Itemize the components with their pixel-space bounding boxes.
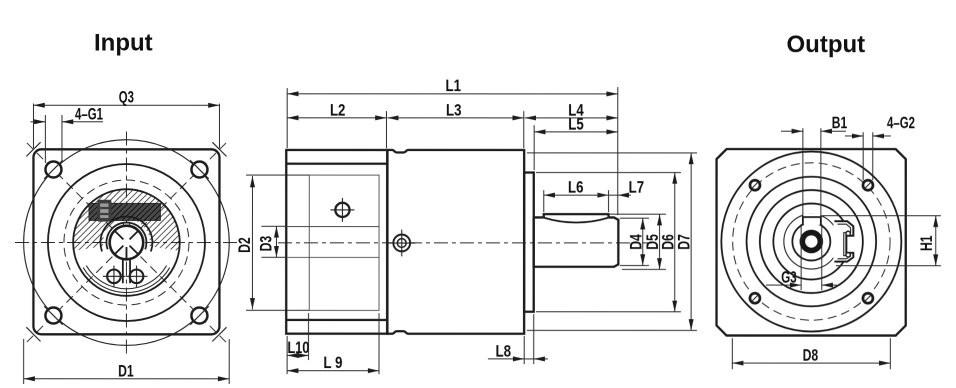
hub outer circle bbox=[773, 204, 849, 280]
svg-text:H1: H1 bbox=[918, 235, 936, 251]
svg-text:D7: D7 bbox=[676, 234, 694, 250]
clamp screw left bbox=[107, 270, 121, 284]
pilot circle D1 bbox=[24, 140, 230, 346]
bore spoke SE bbox=[130, 246, 138, 254]
shaft key bbox=[544, 214, 609, 217]
svg-text:L5: L5 bbox=[568, 115, 584, 133]
svg-text:L 9: L 9 bbox=[323, 354, 342, 372]
bore spoke NW bbox=[115, 231, 123, 239]
centerline horizontal bbox=[15, 242, 237, 244]
input bore bbox=[110, 226, 144, 260]
svg-text:L1: L1 bbox=[446, 77, 462, 95]
clamp screw top bbox=[846, 231, 850, 235]
body circle bbox=[48, 164, 205, 321]
dimension D8 bbox=[731, 338, 733, 369]
dimension 4-G1 bbox=[44, 115, 46, 163]
svg-text:L7: L7 bbox=[629, 179, 645, 197]
dimension D5 bbox=[610, 213, 666, 215]
flange square bbox=[33, 149, 219, 334]
clamp bracket bbox=[833, 221, 853, 262]
diagonal centerline to top-right hole bbox=[140, 142, 227, 229]
flange hole bottom-right bbox=[191, 308, 207, 324]
output bore ring bbox=[802, 233, 820, 251]
dimension L10 bbox=[308, 313, 310, 360]
dimension L7 bbox=[594, 194, 618, 196]
hub outer circle bbox=[73, 189, 180, 296]
diagonal centerline to top-left hole bbox=[26, 142, 113, 229]
svg-text:D6: D6 bbox=[659, 234, 677, 250]
inner arc r20 bbox=[106, 223, 146, 250]
output shaft bbox=[534, 217, 619, 266]
diagonal centerline to bottom-left hole bbox=[26, 257, 113, 344]
corner tick top-left bbox=[26, 142, 40, 156]
output hole top-right bbox=[863, 180, 873, 190]
hub step circle bbox=[86, 266, 166, 289]
dimension D1 bbox=[23, 339, 25, 384]
svg-text:D3: D3 bbox=[257, 236, 275, 252]
dimension L8 bbox=[523, 336, 525, 364]
bore spoke NE bbox=[130, 231, 138, 239]
dimension D6 bbox=[536, 172, 681, 174]
bolt circle dashed bbox=[733, 163, 890, 320]
dimension L4 bbox=[525, 117, 618, 119]
clamp screw right bbox=[130, 270, 144, 284]
corner tick top-right bbox=[212, 142, 226, 156]
svg-text:D4: D4 bbox=[627, 233, 645, 249]
dashed circle D2 bbox=[64, 180, 189, 305]
output hole bottom-right bbox=[863, 293, 873, 303]
body boundary line bbox=[386, 150, 388, 334]
body port symbol bbox=[393, 235, 410, 252]
dimension B1 bbox=[802, 128, 804, 216]
hub thin circle bbox=[784, 214, 839, 269]
input housing inner bottom line bbox=[286, 319, 387, 321]
dimension D4 bbox=[620, 217, 649, 219]
dimension L3 bbox=[387, 117, 523, 119]
dark clamp band bbox=[89, 203, 161, 220]
outer circle bbox=[721, 151, 901, 331]
output hole top-left bbox=[750, 180, 760, 190]
svg-text:Output: Output bbox=[786, 31, 865, 58]
corner tick bottom-left bbox=[26, 327, 40, 341]
svg-text:L3: L3 bbox=[446, 101, 462, 119]
main body outline with edge notches bbox=[387, 150, 524, 334]
centerline bbox=[278, 242, 652, 244]
hidden bore line top bbox=[286, 226, 379, 228]
clamp screw bottom bbox=[846, 253, 850, 257]
hatched clamp half-annulus bbox=[73, 190, 179, 251]
inner arc r26 bbox=[100, 217, 152, 252]
svg-text:B1: B1 bbox=[832, 114, 848, 132]
flange hole top-left bbox=[45, 162, 61, 178]
dimension D2 bbox=[246, 174, 309, 176]
svg-text:D1: D1 bbox=[118, 362, 134, 380]
dimension D7 bbox=[527, 152, 697, 154]
dimension L2 bbox=[287, 117, 386, 119]
svg-text:L6: L6 bbox=[568, 179, 584, 197]
input screw symbol bbox=[335, 203, 349, 217]
clamp bolt bbox=[97, 200, 111, 222]
flange hole bottom-left bbox=[45, 308, 61, 324]
keyway slot bbox=[803, 213, 820, 224]
input housing outline bbox=[286, 150, 387, 334]
corner tick bottom-right bbox=[212, 327, 226, 341]
bore spoke SW bbox=[115, 246, 123, 254]
svg-text:Q3: Q3 bbox=[119, 88, 134, 106]
svg-text:L10: L10 bbox=[287, 339, 309, 357]
dimension D3 bbox=[261, 225, 286, 227]
face circle 2 bbox=[760, 190, 863, 293]
svg-text:D8: D8 bbox=[803, 347, 819, 365]
svg-text:L8: L8 bbox=[496, 342, 512, 360]
centerline vertical bbox=[125, 132, 127, 355]
output flange plate bbox=[524, 173, 534, 312]
svg-text:G3: G3 bbox=[781, 269, 797, 287]
svg-text:4–G2: 4–G2 bbox=[887, 114, 915, 132]
dimension 4-G2 bbox=[862, 132, 864, 180]
dimension L9 bbox=[286, 336, 288, 374]
hidden bore line bottom bbox=[286, 256, 379, 258]
dimension H1 bbox=[821, 215, 941, 217]
output flange square with chamfered corners bbox=[717, 149, 906, 335]
svg-text:L2: L2 bbox=[330, 101, 346, 119]
svg-text:Input: Input bbox=[94, 30, 153, 57]
inner thin rectangle bbox=[309, 175, 379, 310]
extension lines bbox=[286, 88, 288, 148]
face circle 1 bbox=[747, 177, 877, 307]
clamp bracket inner line bbox=[837, 224, 850, 259]
bore spoke S bbox=[125, 247, 127, 259]
diagonal centerline to bottom-right hole bbox=[140, 257, 227, 344]
dimension L6 bbox=[543, 190, 545, 212]
dimension L1 bbox=[287, 93, 618, 95]
clamp slit lines bbox=[122, 260, 124, 283]
flange hole top-right bbox=[191, 162, 207, 178]
svg-text:D2: D2 bbox=[236, 237, 254, 253]
hub inner circle bbox=[83, 268, 170, 293]
output hole bottom-left bbox=[750, 293, 760, 303]
dimension Q3 bbox=[32, 104, 34, 148]
input housing inner top line bbox=[286, 163, 387, 165]
dimension G3 bbox=[800, 224, 802, 290]
svg-text:4–G1: 4–G1 bbox=[75, 105, 103, 123]
keyway floor arc bbox=[544, 218, 609, 223]
hub bore circle bbox=[792, 223, 830, 261]
dimension L5 bbox=[534, 131, 618, 133]
bore keyway notch bbox=[123, 223, 129, 227]
